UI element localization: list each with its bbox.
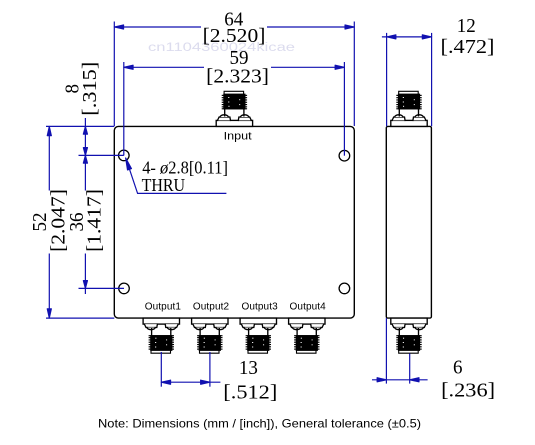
dim 12 arrow right <box>422 35 431 39</box>
dim 36 arrow top <box>83 155 87 163</box>
svg-text:[1.417]: [1.417] <box>83 189 105 252</box>
output connector 2 <box>192 318 228 353</box>
svg-text:12: 12 <box>457 15 476 37</box>
output connector 4 <box>289 318 325 353</box>
dim 64 dimension line <box>114 26 354 28</box>
ext line top edge (52/8) <box>46 125 114 127</box>
mounting hole bottom-left <box>119 283 130 294</box>
dim 59 arrow right <box>335 65 344 69</box>
svg-text:[.236]: [.236] <box>441 379 495 401</box>
dim 59 extension line right <box>343 62 345 156</box>
dim 64 arrow right <box>345 25 354 29</box>
dim 52 arrow top <box>47 126 51 135</box>
dim 13 dimension line <box>161 381 220 383</box>
svg-text:Input: Input <box>224 131 252 143</box>
dim 64 extension line right <box>353 22 355 127</box>
dim 13 arrow right <box>201 380 210 384</box>
output connector 1 <box>143 318 179 353</box>
dim 6 extension line right <box>409 354 411 384</box>
svg-text:13: 13 <box>239 357 258 379</box>
mounting hole top-right <box>339 150 350 161</box>
dim 6 extension line left <box>385 318 387 384</box>
dim 12 extension line left <box>386 33 388 126</box>
dim 59 extension line left <box>123 62 125 155</box>
dim 6 dimension line <box>372 379 428 381</box>
mounting hole bottom-right <box>339 283 350 294</box>
dim 8/36 dimension line <box>84 118 86 294</box>
top view body outline <box>114 126 354 318</box>
side view top connector <box>391 91 427 126</box>
output connector 3 <box>240 318 276 353</box>
svg-text:Output1: Output1 <box>145 302 182 313</box>
svg-text:[2.323]: [2.323] <box>206 66 269 88</box>
svg-text:THRU: THRU <box>142 175 186 195</box>
svg-text:[.512]: [.512] <box>223 381 277 403</box>
svg-text:Output2: Output2 <box>193 302 230 313</box>
dim 64 extension line left <box>113 22 115 127</box>
dim 12 arrow left <box>387 35 396 39</box>
dim 13 arrow left <box>161 380 170 384</box>
dim 12 extension line right <box>431 33 433 126</box>
ext line bottom edge (52) <box>46 317 114 319</box>
dim 59 arrow left <box>124 65 133 69</box>
svg-text:[.315]: [.315] <box>79 62 101 116</box>
dim 6 arrow right (outside) <box>410 378 419 382</box>
dim 64 arrow left <box>114 25 123 29</box>
svg-text:[2.520]: [2.520] <box>203 25 266 47</box>
dim 52 arrow bottom <box>47 309 51 318</box>
mounting hole top-left <box>119 150 130 161</box>
side view bottom connector <box>391 318 427 353</box>
dim 13 extension line right <box>209 352 211 387</box>
dim 52 dimension line <box>48 126 50 318</box>
dim 13 extension line left <box>160 352 162 387</box>
svg-text:[.472]: [.472] <box>441 36 495 58</box>
input connector J1 <box>216 91 252 126</box>
svg-text:Output3: Output3 <box>241 302 278 313</box>
dim 59 dimension line <box>124 66 345 68</box>
hole callout leader arrow <box>126 158 132 170</box>
side view body outline <box>386 126 431 318</box>
dim 12 dimension line <box>382 36 432 38</box>
svg-text:Note: Dimensions (mm / [inch]): Note: Dimensions (mm / [inch]), General … <box>98 417 421 431</box>
svg-text:6: 6 <box>453 357 463 379</box>
ext line hole row bottom (36) <box>79 287 125 289</box>
dim 6 arrow left (outside) <box>377 378 386 382</box>
dim 36 arrow bottom <box>83 281 87 289</box>
dim 8 arrow bottom <box>83 148 87 156</box>
dim 8 arrow top <box>83 126 87 134</box>
svg-text:Output4: Output4 <box>290 302 327 313</box>
hole callout leader line <box>126 158 227 193</box>
ext line hole row top (8/36) <box>79 154 124 156</box>
